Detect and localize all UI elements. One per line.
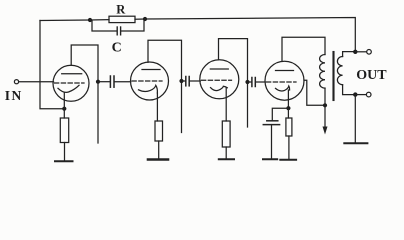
wire primary bottom — [324, 88, 326, 105]
tube V4 cathode — [276, 86, 290, 91]
OUT terminal bottom — [366, 92, 371, 97]
resistor Rk2 — [155, 121, 163, 141]
transformer T1 core — [332, 52, 334, 100]
tube V2 grid — [132, 80, 162, 82]
ground bypass — [263, 158, 277, 160]
tube V4 — [265, 61, 304, 100]
wire Rk4 to ground — [288, 136, 290, 160]
node V1 plate coupling junction — [96, 80, 100, 84]
tube V3 — [200, 60, 239, 99]
wire V4 screen to primary bottom — [304, 80, 325, 105]
wire Rk1 to ground — [64, 143, 66, 162]
ground V3 — [219, 158, 234, 160]
wire V4 plate to transformer — [282, 37, 325, 61]
ground V2 — [148, 158, 168, 161]
tube V3 plate bar — [210, 68, 228, 70]
wire RC left lead — [90, 19, 109, 21]
ground V1 — [55, 160, 73, 162]
wire V1 plate to bus — [71, 45, 98, 143]
wire OUT bottom terminal lead — [355, 94, 366, 96]
resistor Rk3 — [222, 121, 230, 147]
wire V3 plate to bus — [219, 39, 248, 127]
wire feedback top bus — [40, 19, 90, 22]
wire C branch right — [122, 19, 144, 31]
svg-text:IN: IN — [5, 88, 23, 103]
wire secondary top — [343, 52, 356, 57]
capacitor coupling C3 — [248, 81, 252, 83]
tube V1 cathode — [58, 85, 79, 92]
wire top bus to output corner — [145, 18, 355, 52]
OUT terminal top — [367, 50, 372, 55]
wire secondary to ground — [354, 95, 356, 144]
node primary bottom junction — [323, 103, 327, 107]
wire V2 plate to bus — [148, 40, 182, 132]
tube V3 grid — [202, 79, 232, 81]
wire V1 cathode lead — [63, 93, 65, 118]
resistor Rk4 — [286, 118, 292, 136]
capacitor coupling C1 — [98, 81, 110, 83]
ground secondary — [344, 142, 367, 144]
tube V1 plate bar — [62, 73, 82, 75]
wire RC right lead — [135, 18, 145, 20]
tube V1 grid — [55, 82, 85, 84]
wire bypass cap to ground — [271, 125, 273, 160]
tube V4 plate bar — [276, 70, 294, 72]
wire V2 cathode lead — [156, 93, 158, 121]
IN terminal — [14, 80, 18, 84]
capacitor bypass Ck4 — [263, 121, 279, 125]
wire IN to tube1 grid — [19, 81, 54, 83]
wire cathode to bypass cap — [272, 108, 288, 120]
svg-text:R: R — [116, 3, 126, 17]
node left RC junction — [88, 18, 92, 22]
wire Rk2 to ground — [158, 141, 160, 160]
node right RC junction — [143, 17, 147, 21]
wire OUT top terminal lead — [355, 51, 366, 53]
ground Rk4 — [280, 159, 296, 161]
capacitor C — [117, 27, 120, 35]
wire C branch left — [92, 20, 116, 31]
wire primary B+ lead — [324, 105, 326, 128]
tube V2 cathode — [139, 85, 158, 93]
wire V3 cathode lead — [225, 88, 227, 121]
resistor Rk1 — [60, 118, 68, 143]
resistor R — [109, 16, 135, 22]
wire V4 cathode lead — [287, 90, 289, 108]
tube V1 — [53, 65, 89, 101]
node tube1 cathode junction — [62, 107, 66, 111]
node V3 plate coupling junction — [245, 80, 249, 84]
wire cathode to Rk4 — [287, 108, 289, 118]
arrow B+ — [323, 127, 328, 135]
tube V3 cathode — [211, 86, 228, 90]
svg-text:OUT: OUT — [356, 68, 387, 83]
capacitor coupling C2 — [182, 80, 186, 82]
transformer T1 secondary — [337, 57, 342, 85]
node V2 plate coupling junction — [179, 79, 183, 83]
node V4 cathode junction — [286, 106, 290, 110]
node OUT bottom junction — [353, 92, 357, 96]
tube V2 — [131, 62, 169, 100]
tube V2 plate bar — [142, 69, 160, 71]
transformer T1 primary — [320, 55, 325, 89]
wire secondary bottom — [343, 85, 356, 95]
wire feedback left drop — [40, 21, 64, 109]
node OUT top junction — [353, 50, 357, 54]
wire Rk3 to ground — [225, 147, 227, 159]
tube V4 grid — [267, 81, 297, 83]
svg-text:C: C — [112, 41, 122, 56]
